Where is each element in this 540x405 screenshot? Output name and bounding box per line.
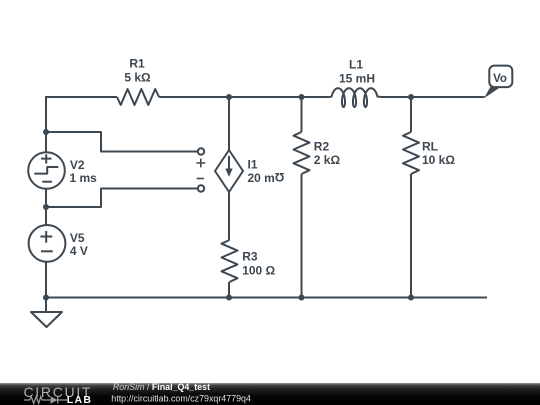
voltage source V5 [29,225,66,262]
logo waveform resistor and diode [24,397,67,404]
wire ground stem [45,298,47,313]
junction node I1 top [226,94,232,100]
wire R2 top stub [301,97,303,132]
wire top rail middle segment [159,96,330,98]
wire top rail right segment [381,96,485,98]
svg-text:Vo: Vo [493,73,507,85]
svg-text:4 V: 4 V [70,244,88,258]
wire R2 bottom stub [301,174,303,298]
wire I1 to R3 [228,192,230,240]
svg-text:2 kΩ: 2 kΩ [314,153,341,167]
logo LAB text [67,394,92,405]
junction node R2 bottom [299,295,305,301]
svg-text:http://circuitlab.com/cz79xqr4: http://circuitlab.com/cz79xqr4779q4 [111,393,251,403]
wire bottom ground rail [46,297,487,299]
wire I1 top stub [228,97,230,150]
resistor R2 [294,132,310,174]
svg-text:Ω: Ω [274,170,284,184]
inductor L1 [330,88,381,107]
resistor R1 [117,89,159,105]
resistor RL [403,132,419,174]
current source I1 arrowhead [225,169,232,177]
svg-text:V2: V2 [70,158,85,172]
svg-text:15 mH: 15 mH [339,71,375,85]
current source I1 (diamond) [215,150,243,192]
svg-text:LAB: LAB [67,394,92,405]
wire R3 bottom stub [228,282,230,298]
wire top rail left segment [46,96,117,98]
net flag Vo tail [484,87,500,98]
junction node RL top [408,94,414,100]
svg-text:R2: R2 [314,140,330,154]
svg-text:V5: V5 [70,231,85,245]
svg-text:R3: R3 [242,250,258,264]
wire V5 minus to ground rail [45,262,47,298]
wire V2 minus to V5 plus [45,189,47,225]
svg-text:5 kΩ: 5 kΩ [124,71,151,85]
wire RL bottom stub [410,174,412,298]
svg-text:L1: L1 [349,57,363,71]
svg-text:R1: R1 [129,57,145,71]
svg-text:100 Ω: 100 Ω [242,264,275,278]
footer title text [111,382,251,403]
control terminal minus [197,179,205,192]
wire RL top stub [410,97,412,132]
svg-text:20 m: 20 m [248,171,275,185]
wire control plus branch [46,132,198,152]
svg-text:RonSim / Final_Q4_test: RonSim / Final_Q4_test [113,382,210,392]
logo CIRCUIT text [24,384,93,400]
svg-text:RL: RL [422,140,438,154]
svg-text:10 kΩ: 10 kΩ [422,153,455,167]
svg-text:I1: I1 [248,157,258,171]
footer bar [0,383,540,405]
junction node ground rail left [43,295,49,301]
control terminal plus [196,148,205,167]
wire left rail top (node to V2 plus) [45,96,47,152]
junction node RL bottom [408,295,414,301]
junction node R3 bottom [226,295,232,301]
svg-text:1 ms: 1 ms [70,171,98,185]
voltage source V2 [28,152,65,189]
logo diode triangle [51,396,58,404]
ground [31,312,62,327]
wire control minus branch [46,189,198,208]
junction node R2 top [299,94,305,100]
junction node left rail minus branch [43,204,49,210]
resistor R3 [222,240,238,282]
junction node left rail plus branch [43,129,49,135]
net flag Vo box [489,66,512,88]
